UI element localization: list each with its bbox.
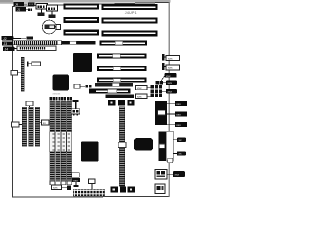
label on black connector — [159, 144, 165, 148]
svg-text:xxx: xxx — [53, 186, 58, 190]
stack label 1 — [173, 138, 186, 142]
battery — [42, 20, 60, 34]
label J9 (top-left) — [14, 2, 28, 7]
left edge label row 3 — [3, 47, 19, 52]
ISA slot 1 — [64, 3, 158, 10]
svg-text:J2: J2 — [3, 37, 7, 41]
SIMM bank A label above — [26, 101, 33, 107]
PCI slot 3 — [97, 78, 146, 83]
svg-text:xxx: xxx — [176, 113, 181, 117]
connector blob pointed by J9 — [28, 2, 35, 6]
ISA slot 3 — [64, 30, 158, 37]
svg-text:xxx: xxx — [168, 56, 173, 60]
serial/parallel stack: white connector — [167, 131, 173, 161]
IDE header (bar B) — [17, 46, 56, 50]
ISA slot 4 left segment with label — [62, 41, 147, 46]
small white label with stem (bottom center) — [89, 179, 96, 189]
svg-text:xxx: xxx — [166, 74, 171, 78]
jumper block cluster — [151, 81, 163, 97]
svg-text:xxx: xxx — [137, 86, 142, 90]
svg-text:xxxxxx: xxxxxx — [53, 93, 61, 96]
DIMM/SIMM bank B socket 3 — [61, 101, 66, 184]
svg-text:xx: xx — [179, 138, 183, 142]
CPU slot top cap — [108, 100, 135, 106]
svg-text:xx: xx — [43, 121, 47, 125]
scan gray band along top — [0, 0, 171, 2]
SIMM bank A socket 2 — [29, 107, 34, 146]
chip U3 (bottom) — [81, 142, 99, 162]
jumper pins pointed by J10 — [28, 8, 32, 10]
svg-text:xxx: xxx — [168, 89, 173, 93]
SIMM bank A left label — [12, 122, 23, 127]
CPU slot label — [118, 142, 126, 147]
stacked labels cluster (bottom center-left) — [72, 173, 80, 187]
keyboard connector icon 2 — [47, 5, 58, 18]
label on frame for strip — [11, 71, 21, 76]
label at connector bottom — [167, 122, 187, 127]
PCI slot 2 — [97, 66, 146, 71]
svg-text:xxx: xxx — [137, 95, 142, 99]
rounded component right of CPU slot — [134, 138, 153, 151]
PCI slot 1 — [97, 53, 146, 58]
small white box below stack — [168, 158, 173, 162]
SIMM bank A socket 1 — [22, 107, 27, 146]
cluster right label 2 — [162, 89, 177, 93]
ISA slot 2 — [64, 17, 158, 24]
label + jumper left of thin bar — [74, 84, 91, 88]
svg-text:J4: J4 — [5, 47, 9, 51]
left edge label row 2 — [2, 41, 17, 46]
svg-text:xxx: xxx — [175, 173, 180, 177]
floppy header (hatched bar A) — [13, 41, 57, 45]
left edge label row 1 — [2, 36, 27, 41]
bar above CPU slot — [106, 94, 135, 98]
DIMM/SIMM bank B socket 4 — [67, 101, 72, 184]
svg-text:J3: J3 — [4, 42, 8, 46]
cluster left label 1 — [136, 86, 151, 90]
svg-text:xxx: xxx — [168, 81, 173, 85]
DIMM/SIMM bank B socket 1 — [50, 101, 55, 184]
svg-text:xxx: xxx — [176, 102, 181, 106]
jumper with label (left) — [27, 61, 41, 66]
mouse connector icon — [155, 170, 185, 180]
keyboard connector icon 1 — [36, 3, 47, 16]
svg-text:xxx: xxx — [176, 123, 181, 127]
stack label 2 — [173, 151, 186, 155]
SIMM bank A socket 3 — [35, 107, 40, 146]
svg-text:J1: J1 — [17, 8, 21, 12]
label J10 — [16, 7, 29, 12]
keyboard connector icon (bottom) — [155, 184, 165, 193]
left vertical pin header strip — [21, 57, 24, 91]
right mid jumper JP2 — [162, 63, 180, 70]
svg-text:J9: J9 — [15, 3, 19, 7]
board outline — [13, 2, 169, 197]
svg-text:xxx: xxx — [168, 66, 173, 70]
shared slot row with label — [89, 89, 131, 94]
power connector (right tall black) — [155, 101, 187, 125]
cluster right label 1 — [163, 81, 177, 85]
fan/power icon right of bank B — [71, 100, 80, 115]
chipset chip U1 — [73, 53, 92, 72]
DIMM/SIMM bank B socket 2 — [56, 101, 61, 184]
cluster left label 2 — [136, 94, 151, 99]
right mid jumper JP1 — [162, 54, 180, 61]
front panel header — [73, 189, 105, 196]
svg-text:J4UP1: J4UP1 — [125, 11, 137, 15]
bottom-left label with pointer — [52, 185, 72, 190]
cluster top label — [161, 73, 177, 81]
CPU slot bottom cap — [111, 186, 135, 192]
svg-text:xxx: xxx — [73, 178, 78, 182]
label between SIMM banks — [40, 120, 50, 125]
small component pointed at (CD-in) — [27, 37, 34, 40]
chip U2 — [53, 75, 70, 91]
svg-text:xx: xx — [179, 152, 183, 156]
thin connector bar — [95, 83, 133, 86]
CPU slot body — [119, 107, 125, 187]
SIMM bank B top pin row — [50, 97, 72, 101]
serial/parallel stack: black connector — [158, 131, 166, 161]
